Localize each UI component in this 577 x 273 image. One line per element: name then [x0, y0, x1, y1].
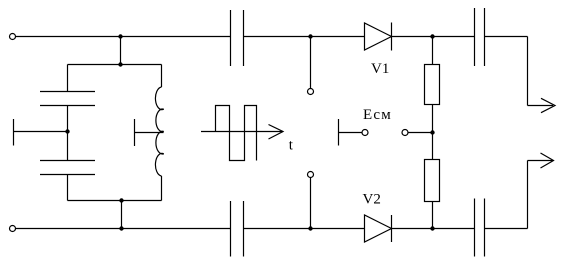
terminal tap bar left — [13, 119, 15, 146]
diode V2 — [365, 215, 392, 242]
wire tank left middle lead — [67, 106, 69, 161]
wire top rail left segment — [16, 36, 231, 38]
node junction bottom rail at tank link — [119, 226, 123, 230]
wire tank left upper lead — [67, 65, 69, 92]
wire tank left lower lead — [67, 175, 69, 201]
wire bottom rail middle segment — [244, 228, 365, 230]
wire tank bottom edge — [68, 200, 162, 202]
capacitor coupling bottom — [231, 201, 244, 257]
resistor lower — [425, 160, 440, 202]
capacitor output bottom — [475, 199, 485, 257]
node junction tank bottom — [119, 198, 123, 202]
terminal tap bar Есм — [338, 119, 340, 146]
terminal tap bar inductor — [134, 119, 136, 146]
terminal Есм left (open circle) — [362, 130, 368, 136]
node junction capacitor tap — [65, 129, 69, 133]
wire top stub — [310, 37, 312, 89]
node junction bottom rail divider — [430, 226, 434, 230]
capacitor output top — [475, 8, 485, 66]
pulse waveform symbol — [201, 106, 283, 161]
resistor upper — [425, 65, 440, 105]
arrow output bottom — [528, 153, 554, 168]
svg-text:V2: V2 — [363, 192, 381, 208]
wire bottom rail left segment — [16, 228, 231, 230]
wire resistor upper to node — [432, 105, 434, 160]
diode V1 — [365, 23, 392, 51]
capacitor coupling top — [231, 10, 244, 66]
wire capacitor tap — [14, 131, 68, 133]
wire output bottom to corner — [485, 228, 528, 230]
node junction top rail divider — [430, 34, 434, 38]
input terminal bottom (open circle) — [10, 226, 16, 232]
arrow output top — [528, 98, 556, 112]
wire Есм right to divider node — [408, 132, 433, 134]
svg-text:t: t — [289, 138, 294, 154]
wire Есм left — [339, 132, 363, 134]
wire output bottom corner up — [527, 161, 529, 229]
node junction bottom stub — [308, 226, 312, 230]
terminal top stub (open circle) — [308, 89, 314, 95]
inductor with tap — [155, 65, 163, 201]
wire output top to corner — [485, 36, 528, 38]
capacitor tank lower — [40, 161, 95, 175]
wire inductor tap — [135, 132, 164, 134]
node junction divider middle — [430, 130, 434, 134]
wire top rail middle segment — [244, 36, 365, 38]
node junction top stub — [308, 34, 312, 38]
wire bottom rail right segment — [392, 228, 475, 230]
wire bottom stub — [310, 178, 312, 229]
wire top rail right segment — [392, 36, 475, 38]
wire divider upper lead — [432, 37, 434, 65]
wire output top corner down — [527, 37, 529, 106]
terminal Есм right (open circle) — [402, 130, 408, 136]
wire resistor lower to bottom rail — [432, 202, 434, 229]
terminal bottom stub (open circle) — [308, 172, 314, 178]
input terminal top (open circle) — [10, 34, 16, 40]
capacitor tank upper — [40, 92, 95, 106]
node junction at top of tank link — [118, 34, 122, 38]
svg-text:V1: V1 — [371, 61, 389, 77]
wire tank top edge — [68, 64, 162, 66]
node junction tank top — [118, 62, 122, 66]
svg-text:Есм: Есм — [363, 107, 392, 123]
wire link tank bottom to bottom rail — [121, 201, 123, 229]
wire link from top rail to tank top — [120, 37, 122, 65]
